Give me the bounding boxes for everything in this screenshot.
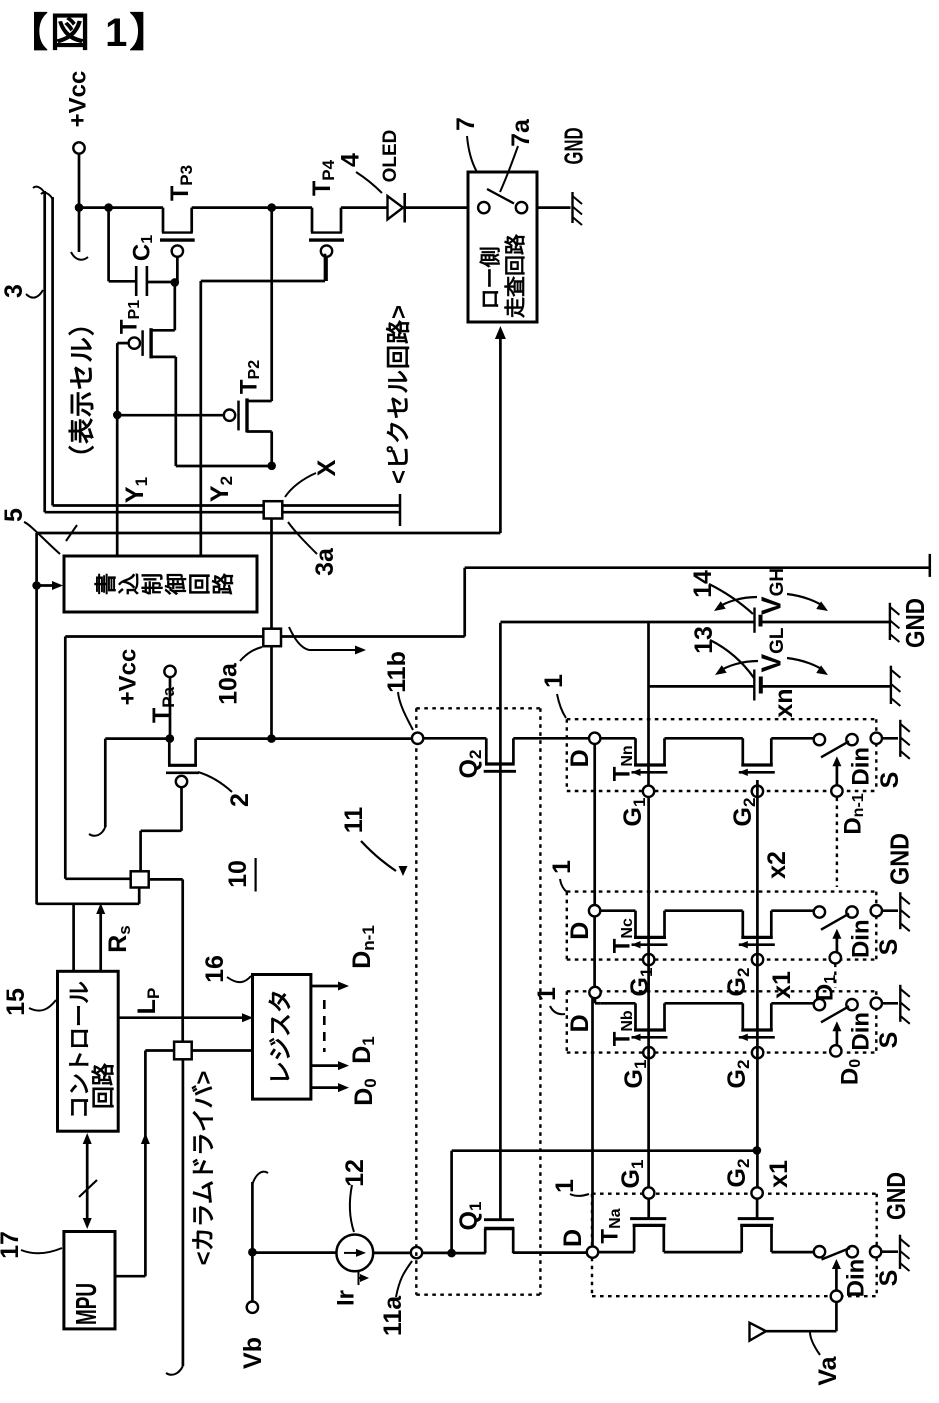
svg-text:GND: GND [559,128,589,165]
svg-text:GND: GND [900,598,930,648]
svg-text:10: 10 [224,860,252,888]
svg-text:Din: Din [843,1259,870,1298]
svg-text:走査回路: 走査回路 [504,233,528,318]
svg-text:2: 2 [226,793,254,807]
svg-text:GND: GND [885,833,915,885]
svg-text:Vb: Vb [239,1337,267,1369]
svg-text:御: 御 [164,573,189,596]
svg-text:15: 15 [2,988,30,1016]
svg-text:回路: 回路 [90,1062,116,1109]
svg-text:S: S [875,1032,903,1049]
svg-text:10a: 10a [215,662,243,705]
svg-text:1: 1 [533,987,561,1001]
svg-text:レジスタ: レジスタ [268,989,295,1085]
svg-text:回: 回 [188,573,213,595]
svg-text:1: 1 [540,674,568,688]
svg-text:制: 制 [141,573,166,595]
svg-text:Va: Va [814,1355,842,1385]
svg-text:D: D [566,749,594,767]
svg-text:11a: 11a [379,1295,407,1336]
svg-text:7a: 7a [507,118,535,147]
svg-text:【図 1】: 【図 1】 [8,11,171,55]
svg-text:（表示セル）: （表示セル） [67,309,97,471]
svg-text:X: X [313,459,341,476]
svg-text:S: S [875,1270,903,1287]
svg-text:D: D [566,922,594,940]
svg-text:3: 3 [0,284,28,298]
svg-text:OLED: OLED [380,130,401,183]
svg-text:コントロール: コントロール [66,981,92,1119]
svg-text:x1: x1 [768,971,796,999]
svg-text:17: 17 [0,1231,24,1259]
svg-text:4: 4 [337,153,365,167]
svg-text:ロー側: ロー側 [480,247,503,310]
svg-text:x2: x2 [763,851,791,879]
svg-text:Din: Din [848,1012,875,1051]
svg-text:GND: GND [881,1172,911,1220]
svg-text:Din: Din [848,919,875,958]
svg-text:1: 1 [551,1179,579,1193]
svg-text:x1: x1 [765,1160,793,1188]
svg-text:+Vcc: +Vcc [65,71,92,128]
svg-text:11b: 11b [383,651,411,693]
svg-text:xn: xn [770,688,798,717]
svg-text:<カラムドライバ>: <カラムドライバ> [191,1071,218,1266]
svg-text:1: 1 [548,860,576,874]
svg-text:Ir: Ir [333,1290,360,1306]
svg-text:14: 14 [689,570,717,598]
svg-text:7: 7 [452,117,480,131]
svg-text:S: S [876,772,904,789]
svg-text:16: 16 [201,955,229,983]
svg-text:路: 路 [211,572,236,595]
svg-text:11: 11 [340,807,368,834]
svg-text:MPU: MPU [71,1283,103,1325]
svg-text:S: S [875,939,903,956]
svg-text:+Vcc: +Vcc [115,649,142,706]
svg-text:書: 書 [94,573,119,595]
svg-text:12: 12 [341,1159,369,1187]
svg-text:D: D [559,1229,587,1247]
svg-text:Din: Din [848,747,875,786]
svg-text:込: 込 [117,573,142,595]
svg-text:<ピクセル回路>: <ピクセル回路> [385,304,413,484]
svg-text:D: D [566,1014,594,1032]
svg-text:5: 5 [0,508,28,522]
svg-text:13: 13 [690,626,718,654]
